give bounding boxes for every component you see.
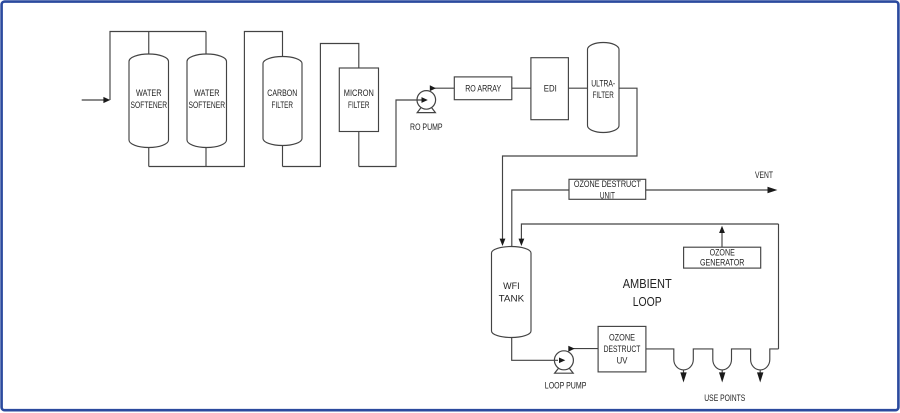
wire: WFI tank bottom to loop pump (512, 338, 558, 361)
wire: ultra-filter to WFI tank (503, 88, 638, 240)
svg-text:RO PUMP: RO PUMP (410, 122, 443, 132)
svg-text:SOFTENER: SOFTENER (131, 100, 168, 110)
wire: ambient loop right side (778, 224, 780, 349)
box: ozone destruct UV (598, 326, 646, 372)
box: EDI (531, 58, 569, 120)
arrowhead: loop return into WFI tank (519, 239, 525, 246)
wire: softener2 bottom stub (205, 146, 207, 167)
box: micron filter (339, 68, 378, 132)
arrowhead: RO pump outlet (430, 85, 436, 91)
svg-text:EDI: EDI (544, 84, 557, 94)
arrowhead: loop pump outlet (568, 346, 574, 352)
svg-text:FILTER: FILTER (272, 100, 294, 110)
vessel: water softener 2 (187, 54, 227, 148)
svg-text:FILTER: FILTER (348, 100, 370, 110)
vessel: carbon filter (263, 57, 302, 146)
svg-text:FILTER: FILTER (593, 90, 614, 100)
arrowhead: ozone generator to loop (719, 226, 725, 233)
arrowhead: into loop pump (559, 358, 565, 364)
arrowhead: use point 3 (757, 372, 763, 382)
svg-text:OZONE: OZONE (710, 248, 735, 258)
svg-text:OZONE DESTRUCT: OZONE DESTRUCT (574, 179, 641, 189)
box: ozone destruct unit (569, 179, 646, 199)
svg-text:RO ARRAY: RO ARRAY (465, 84, 501, 94)
svg-text:WFI: WFI (503, 281, 520, 291)
vessel: WFI tank (492, 247, 532, 338)
svg-text:VENT: VENT (755, 170, 773, 180)
svg-text:AMBIENT: AMBIENT (623, 276, 672, 291)
svg-text:DESTRUCT: DESTRUCT (604, 344, 641, 354)
wire: RO pump outlet to RO array (433, 87, 454, 89)
wire: carbon bottom stub (282, 144, 284, 167)
wire: tank vent to ozone destruct unit (512, 190, 569, 247)
svg-text:GENERATOR: GENERATOR (700, 258, 745, 268)
svg-text:WATER: WATER (136, 88, 162, 98)
arrowhead: use point 2 (719, 372, 725, 382)
wire: softener bottom bus up to carbon filter (149, 32, 283, 167)
arrowhead: use point 1 (680, 372, 686, 382)
wire: ozone destruct unit to vent (646, 189, 771, 191)
svg-text:WATER: WATER (194, 88, 220, 98)
svg-text:SOFTENER: SOFTENER (189, 100, 226, 110)
box: ozone generator (684, 247, 761, 268)
arrowhead: feed into WFI tank (500, 239, 506, 246)
svg-text:OZONE: OZONE (609, 332, 635, 342)
box: RO array (454, 77, 512, 100)
svg-text:UV: UV (617, 356, 628, 366)
wire: micron bottom stub (358, 132, 360, 167)
svg-text:USE POINTS: USE POINTS (704, 393, 745, 403)
wire: loop pump outlet to UV unit (572, 348, 599, 350)
wire: ambient loop top and return to tank (521, 224, 778, 240)
wire: carbon bus up to micron filter (283, 44, 359, 167)
wire: use point drop stems (683, 370, 685, 374)
vessel: water softener 1 (129, 54, 169, 148)
wire: RO array to EDI (512, 87, 531, 89)
pump: RO pump (417, 91, 436, 113)
svg-text:UNIT: UNIT (600, 190, 615, 200)
wire: tap to water softener 1 (148, 32, 150, 57)
wire: inlet feed line (82, 99, 104, 101)
wire: softener1 bottom stub (148, 146, 150, 167)
vessel: ultra-filter (588, 43, 620, 133)
svg-text:LOOP PUMP: LOOP PUMP (545, 381, 587, 391)
arrowhead: inlet (103, 97, 110, 103)
wire: tap to water softener 2 (205, 32, 207, 56)
svg-text:ULTRA-: ULTRA- (591, 78, 615, 88)
wire: inlet riser (110, 32, 206, 101)
svg-text:TANK: TANK (499, 293, 525, 303)
wire: ozone generator feed to loop (721, 232, 723, 247)
arrowhead: into RO pump (422, 97, 428, 103)
wire: EDI to ultra-filter (568, 87, 587, 89)
svg-text:CARBON: CARBON (267, 88, 297, 98)
label: ambient loop (623, 276, 672, 309)
pump: loop pump (554, 351, 573, 373)
arrowhead: vent (768, 187, 778, 193)
svg-text:MICRON: MICRON (344, 88, 374, 98)
wire: UV unit to use points and loop return (646, 349, 779, 370)
wire: micron bus up to RO pump (359, 100, 422, 167)
svg-text:LOOP: LOOP (633, 294, 662, 309)
